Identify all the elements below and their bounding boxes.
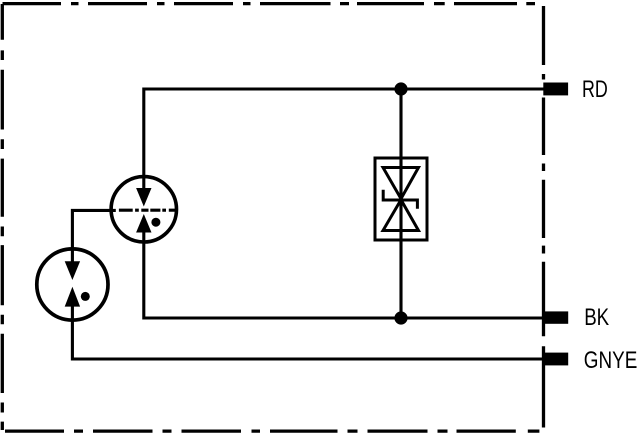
F2 up arrow [65,287,80,307]
spark gap F2 (lower circle) [37,249,108,320]
U1 upper diode triangle [383,168,419,199]
node: junction on RD line [394,82,407,95]
border bottom edge [5,429,539,432]
border right edge [542,6,545,428]
F1 dot mark [151,218,160,227]
TVS suppressor diode U1 (boxed bidirectional zener) [375,158,427,240]
wire: RD top line from corner down into upper spark gap F1 [144,89,545,189]
wire: TVS branch vertical [399,89,402,318]
border top edge [3,2,536,5]
terminal GNYE (black block) [543,353,568,366]
border left edge [1,4,4,430]
U1 zener bar with hooks [383,190,417,209]
F1 up arrow [136,214,151,233]
wire: F1 left lead to corner, down into lower spark gap F2 [72,210,115,262]
node: junction on BK line [394,311,407,324]
svg-text:BK: BK [584,304,609,331]
spark gap F1 (upper circle, isolating) [111,177,178,242]
wire: F2 bottom lead down to GNYE line and right to terminal [72,306,545,359]
terminal RD (black block) [543,83,568,96]
F1 isolation dash-dot line [119,209,178,212]
svg-text:GNYE: GNYE [584,347,638,374]
U1 box [375,158,427,240]
F2 down arrow [65,261,80,280]
U1 lower diode triangle [383,200,419,231]
terminal BK (black block) [543,311,568,323]
wire: F1 bottom lead down to BK line and right to terminal [144,232,545,318]
F2 dot mark [81,292,90,301]
F1 down arrow [136,188,151,207]
svg-text:RD: RD [582,76,608,103]
